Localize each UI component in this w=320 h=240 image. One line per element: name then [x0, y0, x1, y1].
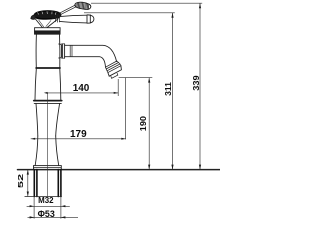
shank bottom edge / 52 bottom extension: [25, 196, 62, 198]
52 arrows: [27, 170, 29, 175]
311 top extension from grip: [84, 12, 175, 14]
lower column taper to waist: [36, 103, 38, 136]
svg-text:339: 339: [192, 75, 201, 91]
phi53 outside arrows: [30, 216, 34, 218]
svg-text:311: 311: [164, 82, 173, 96]
339 arrows: [199, 3, 201, 8]
faucet top cap ring (white band): [35, 28, 61, 31]
svg-text:52: 52: [16, 174, 25, 188]
339 dim vertical: [199, 3, 201, 169]
phi53 dim line: [28, 217, 79, 219]
140 dim line: [48, 92, 119, 94]
dimension graphics: [27, 3, 203, 218]
upper column (slight outward taper): [35, 69, 36, 100]
311 arrows: [171, 13, 173, 18]
threaded shank left wall (double line): [33, 170, 35, 197]
spout tip piece: [108, 66, 122, 77]
angled lever ceramic grip (hatched): [75, 2, 91, 9]
M32 outside arrows: [30, 205, 34, 207]
svg-text:M32: M32: [38, 195, 54, 205]
arrowheads: [27, 3, 201, 218]
column flare to base: [35, 136, 38, 165]
grip end cap: [88, 4, 91, 9]
179 right extension vertical: [125, 78, 127, 140]
deck line: [18, 169, 221, 171]
140 right extension (from spout tip): [117, 79, 119, 96]
lever end cap (D): [87, 15, 94, 23]
svg-text:140: 140: [73, 83, 90, 94]
svg-text:190: 190: [139, 115, 148, 131]
handle bell skirt (truncated V shape): [35, 19, 58, 28]
svg-text:Φ53: Φ53: [38, 209, 55, 219]
M32 dim line with outside arrows: [27, 205, 70, 207]
body cylinder: [36, 34, 60, 68]
spout horizontal pipe and elbow: [65, 45, 117, 61]
ornate handle cap (dark beaded crown): [34, 11, 61, 20]
base disc: [34, 166, 62, 170]
M32 / phi53 extension lines (shank edges extended): [34, 197, 61, 219]
spout ring 2: [70, 45, 72, 56]
311 dim vertical: [172, 13, 174, 170]
svg-text:179: 179: [70, 129, 87, 140]
179 arrows: [31, 138, 36, 140]
339 top extension from grip top: [91, 2, 202, 4]
angled lever arm: [58, 5, 77, 15]
horizontal lever arm: [56, 15, 60, 22]
52 dim vertical: [27, 170, 29, 197]
left horn of cap: [31, 15, 35, 19]
179 dim line: [31, 138, 126, 140]
centerline: [47, 93, 49, 197]
190 top extension from spout tip: [119, 77, 153, 79]
140 arrows: [44, 92, 48, 94]
spout aerator nozzle: [111, 73, 118, 78]
body ring: [36, 67, 60, 69]
faucet top cap ring (dark band): [34, 31, 60, 34]
spout collar: [59, 44, 62, 58]
threaded shank right wall (double line): [57, 170, 59, 197]
190 arrows: [148, 78, 150, 83]
dimension texts: [16, 75, 201, 219]
spout collar rings (tilted): [106, 61, 121, 73]
190 dim vertical: [148, 78, 150, 170]
bamboo joint band: [34, 100, 62, 102]
